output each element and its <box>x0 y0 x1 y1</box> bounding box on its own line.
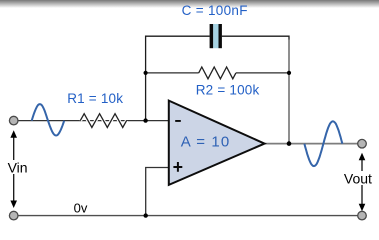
svg-text:C = 100nF: C = 100nF <box>182 3 248 18</box>
svg-text:0v: 0v <box>74 201 88 216</box>
svg-text:Vin: Vin <box>8 160 28 176</box>
svg-text:R2 = 100k: R2 = 100k <box>196 82 260 97</box>
svg-text:A = 10: A = 10 <box>181 134 231 151</box>
svg-text:Vout: Vout <box>344 171 372 187</box>
svg-text:R1 = 10k: R1 = 10k <box>67 91 123 106</box>
